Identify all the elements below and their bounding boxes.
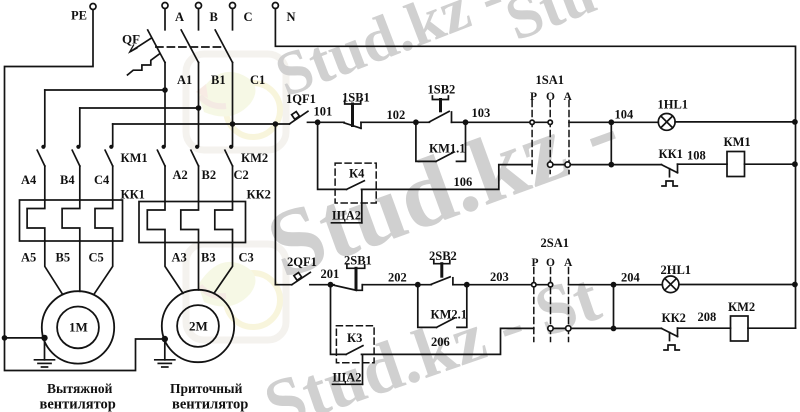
svg-text:В2: В2 [202,168,217,182]
svg-text:2М: 2М [189,319,208,334]
svg-text:А: А [564,257,573,269]
svg-text:КК1: КК1 [121,188,145,202]
svg-text:КК2: КК2 [662,311,686,325]
svg-text:2HL1: 2HL1 [661,263,692,277]
svg-text:С2: С2 [234,168,249,182]
svg-text:B: B [210,10,218,24]
svg-text:108: 108 [687,149,706,163]
svg-text:201: 201 [321,267,340,281]
svg-text:2QF1: 2QF1 [287,255,317,269]
svg-text:В4: В4 [60,173,75,187]
svg-text:Вытяжной: Вытяжной [47,381,113,396]
svg-text:ЩА2: ЩА2 [332,209,361,223]
svg-text:Р: Р [530,91,537,103]
svg-text:A: A [175,10,184,24]
svg-text:1SB2: 1SB2 [428,82,456,96]
svg-text:PE: PE [71,9,87,23]
svg-text:101: 101 [314,105,333,119]
svg-text:А5: А5 [21,251,36,265]
svg-text:КК2: КК2 [247,188,271,202]
svg-text:К3: К3 [347,331,362,345]
svg-text:2SA1: 2SA1 [541,236,569,250]
svg-text:B1: B1 [211,73,226,87]
svg-text:2SB2: 2SB2 [429,249,457,263]
svg-text:A1: A1 [177,73,192,87]
svg-text:А: А [564,91,573,103]
svg-text:С3: С3 [239,251,254,265]
svg-text:А3: А3 [172,251,187,265]
svg-text:КК1: КК1 [659,147,683,161]
svg-text:К4: К4 [349,167,365,181]
svg-text:202: 202 [388,271,407,285]
svg-text:102: 102 [387,108,406,122]
svg-text:208: 208 [698,310,717,324]
svg-text:вентилятор: вентилятор [172,397,248,412]
svg-text:1SB1: 1SB1 [342,91,370,105]
svg-text:N: N [287,10,296,24]
svg-text:1SA1: 1SA1 [536,73,564,87]
svg-text:204: 204 [621,271,641,285]
svg-text:В3: В3 [201,251,216,265]
svg-text:C: C [244,10,253,24]
svg-text:С5: С5 [89,251,104,265]
svg-text:1HL1: 1HL1 [658,98,689,112]
svg-text:КМ1: КМ1 [121,151,148,165]
svg-text:ЩА2: ЩА2 [333,371,362,385]
svg-text:КМ2: КМ2 [728,300,755,314]
svg-text:C1: C1 [250,73,265,87]
svg-text:КМ2.1: КМ2.1 [431,307,468,321]
svg-text:В5: В5 [56,251,71,265]
svg-text:1М: 1М [69,320,88,335]
svg-text:QF: QF [122,32,140,47]
svg-text:КМ1: КМ1 [724,135,751,149]
svg-text:Приточный: Приточный [170,381,243,396]
svg-text:Р: Р [532,257,539,269]
svg-text:О: О [546,257,555,269]
svg-text:КМ1.1: КМ1.1 [429,142,466,156]
svg-text:1QF1: 1QF1 [286,92,316,106]
svg-text:106: 106 [454,175,473,189]
svg-text:2SB1: 2SB1 [344,254,372,268]
svg-text:КМ2: КМ2 [241,151,268,165]
svg-text:103: 103 [472,106,491,120]
svg-text:вентилятор: вентилятор [40,397,116,412]
svg-text:203: 203 [490,270,509,284]
svg-text:206: 206 [431,335,450,349]
svg-text:С4: С4 [94,173,110,187]
svg-text:А4: А4 [21,173,37,187]
svg-text:104: 104 [615,108,635,122]
svg-text:А2: А2 [173,168,188,182]
svg-text:О: О [546,91,555,103]
